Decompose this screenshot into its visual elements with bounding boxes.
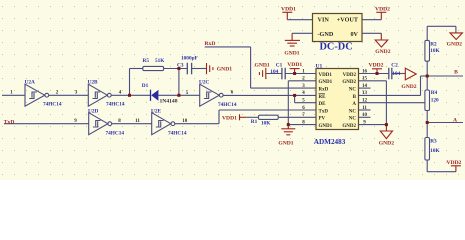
wire to R5 left: [130, 68, 143, 70]
svg-text:R5: R5: [143, 58, 150, 64]
sheet background: [0, 0, 465, 180]
wire R5 branch vertical: [129, 69, 131, 96]
wire RxD vertical: [250, 47, 252, 88]
svg-text:R1: R1: [251, 119, 258, 125]
wire U1 pin15 GND2: [359, 80, 387, 82]
resistor R4: [425, 90, 430, 111]
capacitor C1: [281, 68, 283, 80]
junction VDD2 pin16: [376, 72, 379, 75]
svg-text:PV: PV: [319, 117, 326, 122]
U1 right pin names: [342, 73, 356, 129]
inverter U2B: [88, 84, 111, 106]
junction RE-DE: [293, 94, 296, 97]
wire C2 to GND2: [392, 73, 406, 75]
svg-text:U2E: U2E: [151, 108, 161, 114]
wire DC-DC VIN: [287, 19, 312, 21]
svg-text:GND1: GND1: [319, 80, 333, 85]
junction node A: [426, 121, 429, 124]
inverter U2D: [89, 113, 112, 135]
svg-text:-GND: -GND: [318, 31, 334, 38]
svg-text:GND2: GND2: [379, 141, 394, 147]
wire R3 bottom: [426, 160, 428, 172]
wire RxD to U1 pin3: [251, 87, 316, 89]
svg-text:R3: R3: [430, 139, 437, 145]
svg-text:10K: 10K: [261, 120, 271, 126]
inverter U2E: [152, 113, 175, 135]
svg-text:74HC14: 74HC14: [218, 102, 237, 108]
junction GND1 pin8: [287, 123, 290, 126]
wire B row: [427, 75, 463, 77]
wire TxD vertical: [218, 110, 220, 124]
svg-text:RxD: RxD: [205, 41, 216, 47]
svg-text:DC-DC: DC-DC: [320, 42, 353, 53]
svg-text:U2A: U2A: [25, 79, 35, 85]
svg-text:GND2: GND2: [342, 80, 356, 85]
wire U1 pin9 GND2: [359, 124, 387, 126]
wire GND2 tie vertical: [385, 81, 387, 125]
svg-text:VDD1: VDD1: [222, 115, 237, 121]
wire U1 pin12 A: [359, 102, 425, 104]
svg-text:13: 13: [362, 91, 368, 96]
wire U2E out: [175, 123, 219, 125]
ground GND2 at C2: [405, 68, 416, 80]
svg-text:NC: NC: [349, 88, 357, 93]
wire U2B out to D1: [111, 94, 150, 96]
wire U1 pin1 VDD1: [285, 73, 316, 75]
wire node A to R3: [426, 123, 428, 138]
svg-text:104: 104: [270, 69, 278, 75]
wire VDD1 to R1: [246, 116, 258, 118]
U1 right pin numbers: [362, 69, 368, 125]
wire C3 to GND1: [192, 68, 207, 70]
wire U1 pin16 to C2: [359, 73, 389, 75]
svg-text:A: A: [453, 118, 457, 124]
svg-text:VDD1: VDD1: [287, 62, 302, 68]
IC U1 body: [316, 69, 359, 130]
wire U2C out to U1 pin4: [223, 94, 316, 96]
ground GND2 at U1 pin9: [380, 125, 392, 139]
U1 RE overline: [319, 93, 325, 95]
inverter U2A: [25, 84, 49, 106]
wire R1 to U1 pin7: [278, 116, 316, 118]
wire R4 to node A: [426, 111, 428, 123]
svg-text:11: 11: [135, 119, 140, 124]
svg-text:GND2: GND2: [342, 124, 356, 129]
svg-text:NC: NC: [349, 117, 357, 122]
power port VDD2 at DC-DC: [376, 12, 386, 19]
svg-text:104: 104: [392, 71, 400, 77]
svg-text:U1: U1: [316, 63, 323, 69]
resistor R5: [143, 66, 164, 70]
ground GND2 at DC-DC: [375, 33, 388, 47]
junction VDD1 pin1: [293, 72, 296, 75]
wire R5 right to node C3: [164, 68, 188, 70]
junction node B: [426, 75, 429, 78]
capacitor C3: [186, 63, 188, 75]
svg-text:GND2: GND2: [401, 84, 416, 90]
wire RxD stub: [205, 46, 251, 48]
wire DC-DC +VOUT: [362, 19, 381, 21]
svg-text:VDD2: VDD2: [343, 73, 357, 78]
svg-text:U2B: U2B: [88, 79, 98, 85]
svg-text:DE: DE: [319, 102, 327, 107]
svg-text:C2: C2: [391, 63, 398, 69]
svg-text:14: 14: [362, 84, 368, 89]
capacitor C2: [388, 68, 390, 80]
svg-text:R4: R4: [431, 90, 438, 96]
wire B vertical: [420, 76, 422, 95]
svg-text:GND1: GND1: [319, 124, 333, 129]
svg-text:74HC14: 74HC14: [106, 102, 125, 108]
svg-text:A: A: [352, 102, 356, 107]
wire R3 to VDD2: [427, 171, 456, 173]
wire A row: [427, 122, 463, 124]
wire B to node: [421, 75, 428, 77]
wire U2D out to U2E in: [112, 123, 152, 125]
svg-text:U2C: U2C: [199, 79, 209, 85]
svg-text:16: 16: [362, 69, 368, 74]
resistor R1: [259, 115, 279, 119]
svg-text:VDD2: VDD2: [369, 62, 384, 68]
wire U2A out to U2B in: [49, 94, 89, 96]
wire R2 top gnd stem: [455, 26, 457, 33]
svg-text:GND2: GND2: [375, 49, 390, 55]
wire U1 pin2 GND1: [288, 80, 316, 82]
svg-text:12: 12: [362, 99, 368, 104]
wire U1 pin14 NC stub: [359, 87, 371, 89]
wire U2A input: [2, 94, 25, 96]
ground GND1 at U1 pin8: [281, 125, 295, 135]
svg-text:15: 15: [362, 77, 368, 82]
gate pin numbers: [10, 91, 234, 125]
svg-text:RxD: RxD: [319, 88, 329, 93]
power port VDD2 at U1 pin16: [372, 69, 382, 74]
svg-text:GND1: GND1: [255, 63, 270, 69]
wire node B to R4: [426, 76, 428, 90]
svg-text:D1: D1: [142, 83, 149, 89]
inverter U2C: [200, 84, 223, 106]
ground GND1 at DC-DC: [285, 33, 300, 46]
svg-text:NC: NC: [349, 109, 357, 114]
wire U1 pin10 NC stub: [359, 116, 371, 118]
svg-text:GND1: GND1: [278, 141, 293, 147]
svg-text:RE: RE: [319, 95, 327, 100]
svg-text:GND1: GND1: [284, 50, 299, 56]
svg-text:GND1: GND1: [217, 66, 232, 72]
junction node C3 top: [177, 67, 180, 70]
power port VDD1 at R1: [240, 114, 247, 120]
svg-text:ADM2483: ADM2483: [314, 138, 346, 146]
svg-text:VDD1: VDD1: [319, 73, 333, 78]
U1 left pin numbers: [302, 69, 305, 125]
wire node C3 vertical: [178, 69, 180, 96]
svg-text:GND2: GND2: [447, 41, 462, 47]
wire GND1 tie vertical: [287, 81, 289, 125]
junction U2B out: [128, 94, 131, 97]
svg-text:VIN: VIN: [318, 17, 330, 24]
svg-text:C1: C1: [276, 63, 283, 69]
svg-text:0V: 0V: [350, 31, 358, 38]
svg-text:TxD: TxD: [4, 119, 15, 125]
wire U1 pin11 NC stub: [359, 109, 371, 111]
ground GND1 at C1: [259, 68, 265, 79]
DC-DC module body: [313, 14, 363, 42]
power port VDD1 at U1 pin1: [290, 69, 300, 74]
svg-text:11: 11: [362, 106, 367, 111]
resistor R2: [425, 40, 430, 61]
wire DE pin5: [295, 102, 316, 104]
wire RE-DE tie vertical: [294, 95, 296, 102]
svg-text:74HC14: 74HC14: [106, 130, 125, 136]
wire TxD to U1 pin6: [219, 109, 316, 111]
ground GND2 at R2: [450, 33, 462, 40]
diode D1: [150, 90, 152, 101]
wire R2 top horizontal: [427, 25, 456, 27]
svg-text:120: 120: [431, 98, 439, 104]
svg-text:VDD1: VDD1: [281, 7, 296, 13]
svg-text:1N4148: 1N4148: [160, 99, 178, 105]
wire DC-DC 0V: [362, 32, 381, 34]
wire TxD input: [4, 123, 89, 125]
svg-text:10: 10: [362, 113, 368, 118]
svg-text:R2: R2: [430, 41, 437, 47]
svg-text:51K: 51K: [155, 58, 165, 64]
wire R2 bottom: [426, 61, 428, 76]
power port VDD1 at DC-DC: [282, 12, 292, 19]
wire D1 to U2C in: [158, 94, 200, 96]
power port VDD2 at R3: [451, 166, 461, 172]
svg-text:+VOUT: +VOUT: [337, 17, 359, 24]
svg-text:74HC14: 74HC14: [168, 130, 187, 136]
junction GND2 pin9: [385, 123, 388, 126]
ground GND1 at C3: [207, 63, 213, 74]
junction dots: [128, 67, 429, 126]
wire U1 pin8 GND1: [288, 124, 316, 126]
svg-text:VDD2: VDD2: [446, 160, 461, 166]
svg-text:1000pF: 1000pF: [181, 56, 198, 62]
wire R2 top: [426, 26, 428, 40]
svg-text:U2D: U2D: [88, 108, 98, 114]
wire C1 left to GND1: [266, 73, 282, 75]
wire DC-DC -GND: [292, 32, 312, 34]
wire U1 pin13 B: [359, 94, 421, 96]
svg-text:10K: 10K: [430, 48, 440, 54]
svg-text:B: B: [454, 70, 458, 76]
svg-text:10K: 10K: [430, 148, 440, 154]
junction node C3 bottom: [177, 94, 180, 97]
svg-text:TxD: TxD: [319, 109, 329, 114]
svg-text:10: 10: [182, 119, 188, 124]
resistor R3: [425, 138, 430, 161]
U1 left pin names: [319, 73, 333, 129]
svg-text:VDD2: VDD2: [375, 7, 390, 13]
svg-text:74HC14: 74HC14: [43, 102, 62, 108]
